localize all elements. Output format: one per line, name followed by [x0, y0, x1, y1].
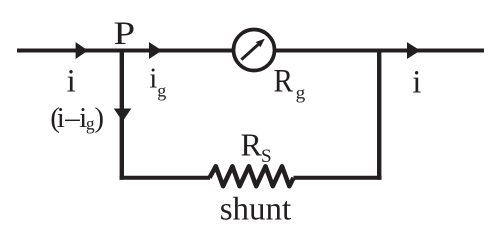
svg-text:i: i — [149, 62, 157, 94]
svg-text:g: g — [157, 81, 166, 101]
svg-text:P: P — [114, 16, 136, 52]
wire left vertical branch — [120, 49, 124, 180]
svg-text:R: R — [274, 64, 294, 100]
wire top horizontal — [17, 49, 484, 53]
resistor RS zigzag — [210, 166, 294, 186]
galvanometer G circle — [234, 30, 275, 71]
galvanometer needle arrowhead — [256, 39, 265, 48]
svg-text:i: i — [412, 64, 421, 100]
arrow current (i-ig) down — [114, 109, 132, 122]
wire bottom horizontal left segment — [120, 176, 210, 180]
arrow current i left — [76, 42, 88, 59]
arrow current ig — [149, 42, 162, 59]
svg-text:R: R — [241, 127, 263, 163]
svg-text:i: i — [67, 63, 76, 99]
svg-text:g: g — [296, 82, 306, 102]
svg-text:S: S — [261, 146, 272, 167]
svg-text:(i–ig): (i–ig) — [50, 102, 104, 134]
svg-text:shunt: shunt — [220, 192, 292, 228]
wire bottom horizontal right segment — [294, 176, 382, 180]
wire right vertical — [377, 49, 381, 180]
galvanometer needle — [241, 45, 258, 60]
arrow current i right — [407, 42, 420, 59]
